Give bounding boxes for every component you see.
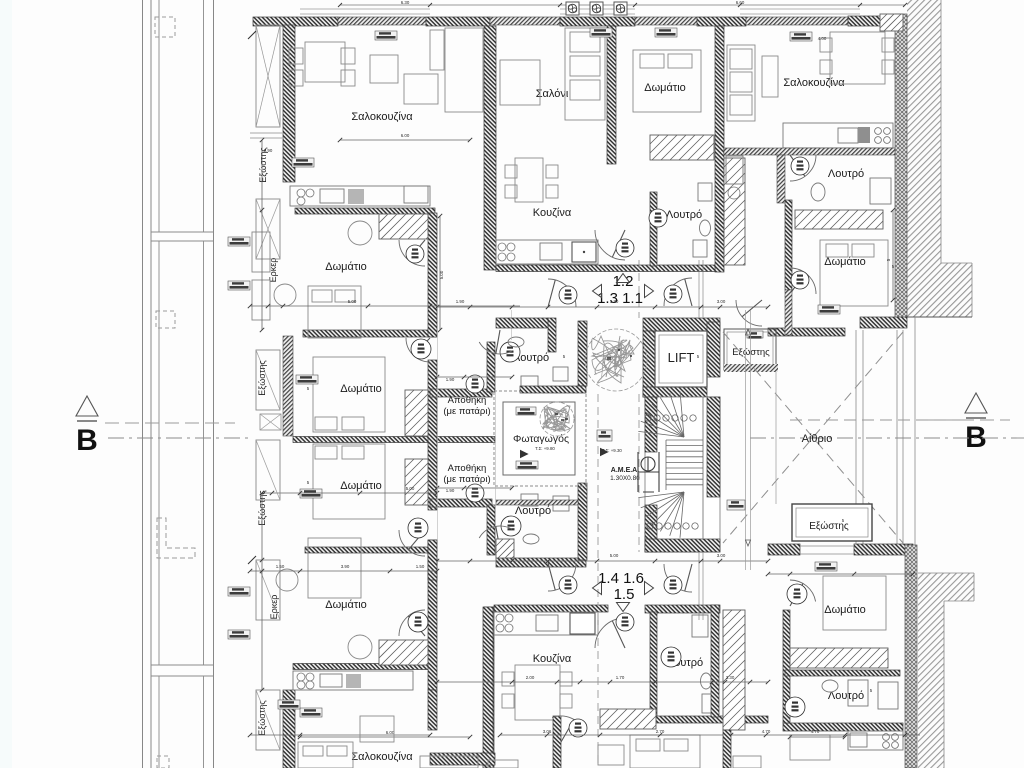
svg-text:1.90: 1.90 — [446, 488, 455, 493]
svg-text:B: B — [965, 421, 987, 454]
svg-text:6.00: 6.00 — [386, 730, 395, 735]
svg-text:LIFT: LIFT — [668, 350, 695, 365]
svg-text:5.00: 5.00 — [610, 553, 619, 558]
svg-text:6.00: 6.00 — [401, 133, 410, 138]
svg-text:4.00: 4.00 — [818, 36, 827, 41]
svg-text:Δωμάτιο: Δωμάτιο — [824, 256, 866, 268]
svg-text:3.30: 3.30 — [726, 675, 735, 680]
svg-text:1.70: 1.70 — [610, 299, 619, 304]
svg-text:Αποθήκη: Αποθήκη — [448, 463, 487, 474]
svg-text:1.90: 1.90 — [456, 299, 465, 304]
svg-text:Δωμάτιο: Δωμάτιο — [340, 480, 382, 492]
svg-text:Αίθριο: Αίθριο — [802, 433, 833, 445]
svg-text:Δωμάτιο: Δωμάτιο — [325, 599, 367, 611]
svg-text:1.50: 1.50 — [416, 564, 425, 569]
svg-text:Λουτρό: Λουτρό — [666, 209, 702, 221]
svg-text:6.30: 6.30 — [401, 0, 410, 5]
svg-text:1.50: 1.50 — [276, 564, 285, 569]
svg-text:Αποθήκη: Αποθήκη — [448, 395, 487, 406]
svg-text:6.60: 6.60 — [736, 0, 745, 5]
svg-text:0.90: 0.90 — [264, 148, 273, 153]
svg-text:Φωταγωγός: Φωταγωγός — [513, 433, 569, 445]
svg-text:Λουτρό: Λουτρό — [828, 168, 864, 180]
svg-text:4.70: 4.70 — [762, 729, 771, 734]
svg-text:(με πατάρι): (με πατάρι) — [443, 406, 490, 417]
svg-text:Εξώστης: Εξώστης — [732, 347, 770, 358]
svg-text:Σαλοκουζίνα: Σαλοκουζίνα — [783, 77, 845, 89]
svg-text:Ερκερ: Ερκερ — [269, 595, 279, 620]
svg-text:Ερκερ: Ερκερ — [268, 258, 278, 283]
svg-text:Λουτρό: Λουτρό — [515, 505, 551, 517]
svg-text:Κουζίνα: Κουζίνα — [533, 653, 572, 665]
svg-text:2.70: 2.70 — [656, 729, 665, 734]
svg-text:Δωμάτιο: Δωμάτιο — [325, 261, 367, 273]
svg-text:B: B — [76, 424, 98, 457]
svg-text:1.5: 1.5 — [614, 586, 635, 603]
svg-text:2.00: 2.00 — [526, 675, 535, 680]
svg-text:Σαλοκουζίνα: Σαλοκουζίνα — [351, 751, 413, 763]
svg-text:3.06: 3.06 — [543, 729, 552, 734]
svg-text:1.90: 1.90 — [446, 377, 455, 382]
svg-text:Εξώστης: Εξώστης — [257, 360, 267, 396]
svg-text:3.00: 3.00 — [717, 553, 726, 558]
svg-text:Κουζίνα: Κουζίνα — [533, 207, 572, 219]
svg-text:5.00: 5.00 — [439, 270, 444, 279]
svg-text:1.4 1.6: 1.4 1.6 — [598, 570, 644, 587]
svg-text:Α.Μ.Ε.Α.: Α.Μ.Ε.Α. — [611, 467, 639, 474]
svg-text:1.2: 1.2 — [613, 273, 634, 290]
svg-text:4.70: 4.70 — [811, 729, 820, 734]
svg-text:T.Σ: +9.80: T.Σ: +9.80 — [535, 446, 555, 451]
svg-text:Δωμάτιο: Δωμάτιο — [644, 82, 686, 94]
svg-text:(με πατάρι): (με πατάρι) — [443, 474, 490, 485]
svg-text:Σαλόνι: Σαλόνι — [536, 88, 569, 100]
svg-text:1.30Χ0.80: 1.30Χ0.80 — [610, 475, 640, 482]
svg-text:3.90: 3.90 — [341, 564, 350, 569]
svg-text:1.3 1.1: 1.3 1.1 — [597, 290, 643, 307]
svg-text:Δωμάτιο: Δωμάτιο — [340, 383, 382, 395]
svg-text:Σαλοκουζίνα: Σαλοκουζίνα — [351, 111, 413, 123]
svg-text:5.00: 5.00 — [348, 299, 357, 304]
svg-text:Δωμάτιο: Δωμάτιο — [824, 604, 866, 616]
svg-text:3.00: 3.00 — [717, 299, 726, 304]
svg-text:5.00: 5.00 — [406, 486, 415, 491]
svg-text:1.70: 1.70 — [616, 675, 625, 680]
